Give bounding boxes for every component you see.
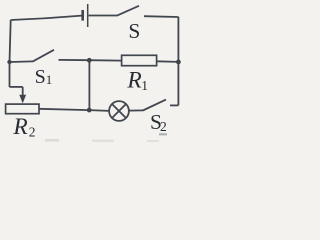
wire center vertical [88, 60, 90, 110]
battery positive plate (long thin) [87, 4, 89, 27]
wire S2 fixed contact hook [170, 104, 178, 106]
wire left vertical [10, 20, 11, 87]
svg-text:S: S [35, 66, 46, 88]
faint print bleed-through marks bottom [45, 139, 59, 142]
switch S blade [117, 6, 139, 16]
wire S fixed contact to right corner [144, 15, 178, 18]
wire battery to switch S [89, 15, 117, 17]
wire right vertical [177, 17, 179, 106]
svg-text:2: 2 [160, 119, 167, 134]
battery negative plate (short thick) [81, 10, 84, 21]
node junction on left vertical [7, 60, 11, 64]
svg-text:1: 1 [141, 78, 148, 93]
rheostat wiper arrow shaft [22, 87, 24, 97]
rheostat R2 body [6, 104, 39, 114]
wire lamp to S2 pivot [129, 109, 143, 111]
resistor R1 body [122, 55, 157, 65]
wire rheostat feed (left vertical to wiper) [10, 86, 23, 88]
wire R1 to right vertical [157, 60, 179, 63]
node junction right [176, 60, 181, 65]
switch S2 blade [143, 100, 166, 111]
wire R2 to center junction [39, 109, 89, 110]
node junction center bottom [87, 108, 92, 113]
rheostat wiper arrowhead [19, 95, 26, 104]
svg-text:1: 1 [46, 72, 53, 87]
wire junction to lamp [89, 109, 109, 112]
wire middle left (node to S1 pivot) [10, 60, 34, 63]
node junction center top [87, 58, 92, 63]
svg-text:R: R [126, 67, 141, 93]
svg-text:S: S [128, 19, 140, 43]
svg-text:2: 2 [29, 125, 36, 140]
lamp L1 [109, 101, 129, 121]
svg-text:R: R [12, 114, 27, 140]
wire top-left (corner to battery) [11, 16, 82, 20]
wire S1 fixed contact to R1 [59, 59, 122, 62]
switch S1 blade [33, 50, 54, 62]
